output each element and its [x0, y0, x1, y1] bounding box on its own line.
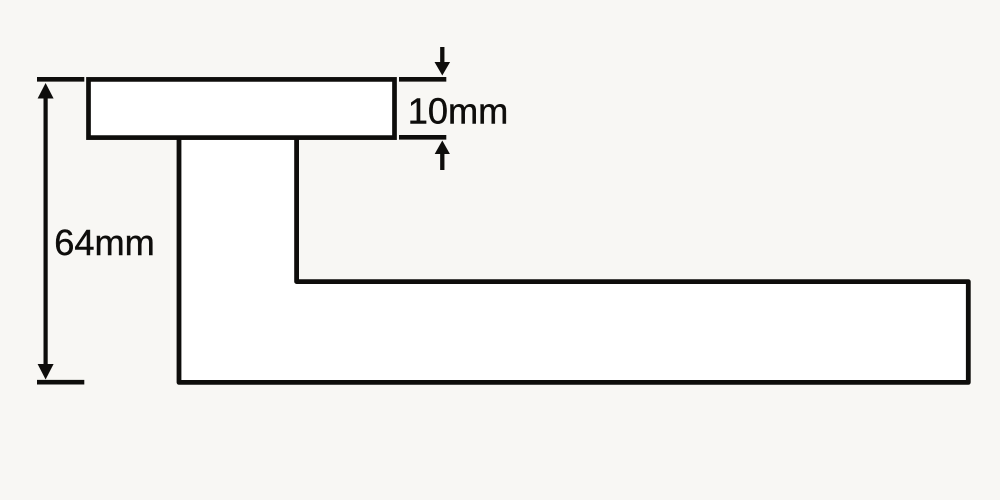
dimension 64mm: bottom extension tick	[37, 380, 84, 385]
svg-text:64mm: 64mm	[54, 222, 155, 263]
dimension 10mm: lower extension line	[399, 135, 446, 140]
dimension 10mm: upper extension line	[399, 77, 446, 82]
handle lever arm (L-profile)	[179, 139, 968, 382]
dimension 10mm: lower arrowhead (points up)	[435, 141, 450, 155]
dimension 10mm: upper arrowhead (points down)	[435, 62, 451, 76]
dimension 64mm: top extension tick	[37, 77, 84, 82]
rosette plate	[89, 79, 395, 137]
dimension 64mm: vertical dimension line	[43, 96, 47, 366]
dimension 10mm: upper arrow shaft	[440, 47, 444, 63]
svg-text:10mm: 10mm	[408, 91, 509, 132]
dimension 10mm: lower arrow shaft	[440, 153, 444, 170]
dimension 64mm: lower arrowhead	[38, 364, 54, 380]
dimension 64mm: upper arrowhead	[38, 83, 54, 99]
